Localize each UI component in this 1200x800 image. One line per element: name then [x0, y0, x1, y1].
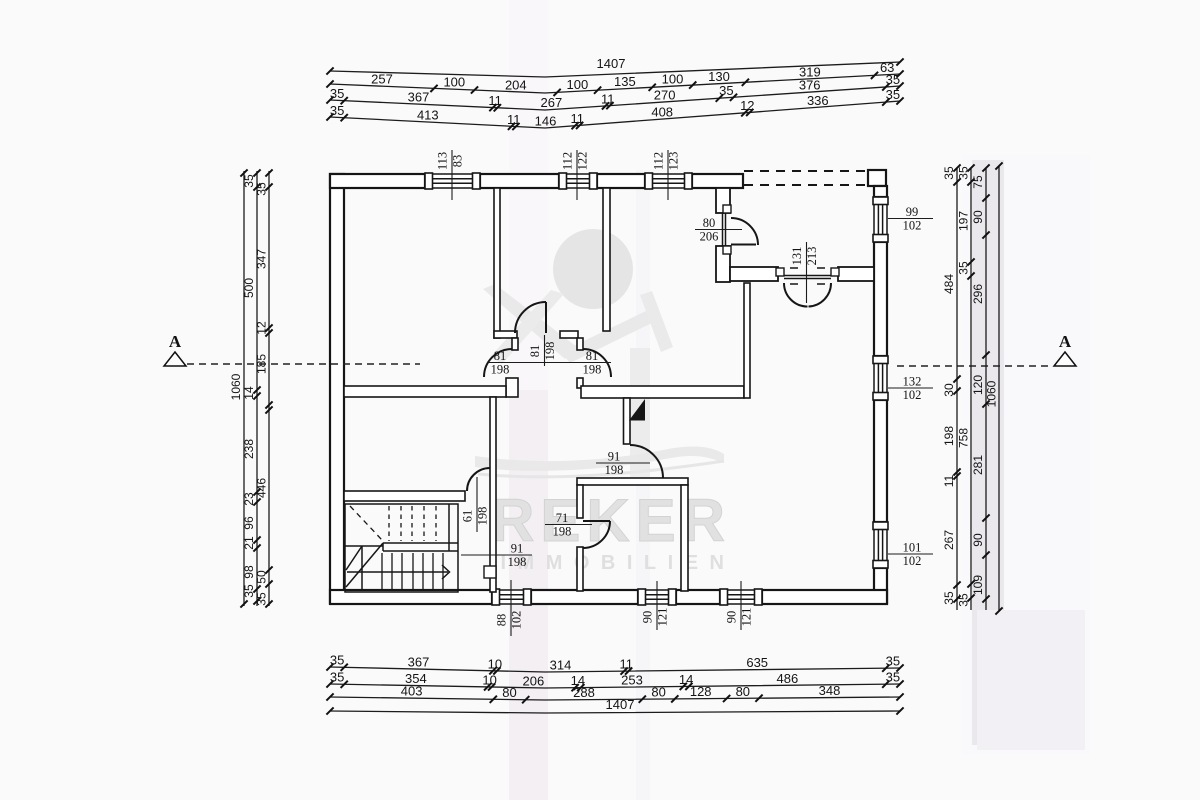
- svg-text:10: 10: [488, 656, 502, 671]
- door 80 jamb lower: [723, 246, 731, 254]
- svg-text:281: 281: [971, 455, 985, 475]
- outer wall right segment 1: [874, 186, 887, 197]
- door 131 jamb left: [776, 268, 784, 276]
- svg-text:131: 131: [790, 247, 804, 266]
- outer wall left: [330, 174, 344, 603]
- svg-text:80: 80: [703, 216, 716, 230]
- svg-text:367: 367: [408, 655, 430, 670]
- svg-text:35: 35: [957, 166, 971, 180]
- svg-text:90: 90: [971, 210, 985, 224]
- interior wall corridor west notch: [484, 566, 496, 578]
- svg-text:A: A: [1059, 332, 1072, 351]
- door 80 jamb upper: [723, 205, 731, 213]
- watermark swoosh ribbon: [475, 447, 724, 471]
- staircase dashed diagonal: [350, 506, 382, 540]
- interior wall bath bottom right: [560, 331, 578, 338]
- svg-text:198: 198: [553, 525, 572, 539]
- staircase outline: [345, 504, 458, 592]
- svg-text:83: 83: [451, 155, 465, 168]
- svg-text:35: 35: [886, 670, 900, 685]
- svg-text:1060: 1060: [229, 373, 243, 400]
- interior wall hall pier left: [506, 378, 518, 397]
- window 132x102 right: [874, 356, 887, 400]
- door 131 jamb right: [831, 268, 839, 276]
- staircase winder diagonal: [346, 543, 383, 587]
- label window label 101/102: [888, 553, 933, 555]
- label door label 91/198 upper: [596, 462, 650, 464]
- svg-text:10: 10: [482, 673, 496, 688]
- svg-text:102: 102: [903, 554, 922, 568]
- svg-text:288: 288: [573, 685, 595, 700]
- outer wall bottom segment 3: [676, 590, 720, 604]
- svg-text:81: 81: [586, 349, 599, 363]
- interior wall hall east: [581, 386, 744, 398]
- dimension chain L-inner line: [268, 171, 270, 606]
- svg-text:135: 135: [614, 74, 636, 89]
- door 80x206 leaf open: [731, 244, 756, 246]
- outer wall top segment 1: [330, 174, 425, 188]
- svg-text:408: 408: [651, 105, 673, 120]
- svg-text:35: 35: [330, 86, 344, 101]
- svg-text:91: 91: [608, 450, 621, 464]
- door 131x213 left arc: [784, 283, 808, 307]
- svg-text:35: 35: [255, 592, 269, 606]
- svg-text:198: 198: [543, 342, 557, 361]
- interior wall corridor east: [624, 398, 631, 444]
- svg-text:204: 204: [505, 77, 527, 92]
- svg-text:91: 91: [511, 542, 524, 556]
- svg-text:197: 197: [957, 211, 971, 231]
- svg-text:35: 35: [942, 166, 956, 180]
- svg-text:35: 35: [330, 103, 344, 118]
- door 131x213 closed leaves: [784, 275, 831, 277]
- watermark roof band apex: [561, 311, 654, 363]
- interior wall room2 east lower: [716, 246, 730, 282]
- interior wall small room east: [681, 485, 688, 591]
- label window label 132/102: [888, 387, 933, 389]
- label door label 81/198 right: [559, 362, 561, 364]
- svg-text:185: 185: [255, 354, 269, 374]
- door 80x206 arc: [731, 218, 758, 245]
- svg-text:1060: 1060: [985, 380, 999, 407]
- svg-text:120: 120: [971, 375, 985, 395]
- dimension chain B1 line: [330, 667, 900, 672]
- svg-text:213: 213: [805, 247, 819, 266]
- dimension chain B2 ticks: [326, 680, 903, 691]
- svg-text:11: 11: [942, 474, 956, 487]
- svg-text:206: 206: [523, 673, 545, 688]
- interior wall small room west lower: [577, 547, 583, 591]
- window 101x102 right: [874, 522, 887, 568]
- svg-text:81: 81: [494, 349, 507, 363]
- svg-text:347: 347: [255, 249, 269, 269]
- label door label 61/198: [476, 477, 478, 532]
- label door label 81/198 left: [489, 362, 611, 364]
- svg-text:486: 486: [777, 671, 799, 686]
- door 81x198 left arc: [484, 349, 512, 377]
- dimension chain R-outer line: [956, 168, 958, 610]
- dimension chain B2 line: [330, 684, 900, 688]
- dimension chain R-inner ticks: [982, 164, 989, 602]
- svg-text:35: 35: [942, 591, 956, 605]
- dimension chain L-total ticks: [240, 169, 247, 607]
- terrace dashed edge upper: [744, 170, 866, 172]
- dimension chain R-mid ticks: [967, 164, 974, 601]
- svg-text:198: 198: [605, 463, 624, 477]
- label window label 90/121 right: [740, 581, 742, 630]
- outer wall top segment 4: [692, 174, 743, 188]
- svg-text:270: 270: [654, 87, 676, 102]
- svg-text:113: 113: [436, 152, 450, 170]
- svg-text:100: 100: [567, 77, 589, 92]
- section line left: [187, 363, 420, 365]
- svg-text:348: 348: [819, 683, 841, 698]
- svg-text:376: 376: [799, 78, 821, 93]
- dimension chain T4 ticks: [326, 97, 903, 130]
- door 80x206 leaf closed: [722, 213, 724, 246]
- svg-text:30: 30: [942, 383, 956, 397]
- svg-text:413: 413: [417, 108, 439, 123]
- svg-text:112: 112: [652, 152, 666, 170]
- staircase walking line: [347, 571, 448, 573]
- dimension chain B4 line: [330, 711, 900, 713]
- svg-text:198: 198: [583, 363, 602, 377]
- dimension chain T3 ticks: [326, 82, 903, 111]
- svg-text:206: 206: [700, 230, 719, 244]
- interior wall topright room south east: [838, 267, 874, 281]
- window 112x123 top: [645, 174, 692, 188]
- svg-text:21: 21: [242, 536, 256, 550]
- dimension chain T1 line: [330, 62, 900, 77]
- interior wall hall pier right: [577, 378, 583, 388]
- watermark roof band left: [483, 284, 577, 359]
- label window label 113/83: [451, 150, 453, 200]
- dimension chain L-mid line: [256, 171, 258, 606]
- section line right: [897, 365, 1053, 367]
- svg-text:238: 238: [242, 439, 256, 459]
- watermark pole: [630, 348, 650, 484]
- svg-text:35: 35: [886, 72, 900, 87]
- interior wall room2 east upper: [716, 188, 730, 213]
- window 90x121 bottom left: [638, 590, 676, 604]
- interior wall stub hall left: [512, 338, 518, 350]
- svg-text:446: 446: [255, 478, 269, 498]
- svg-text:758: 758: [957, 428, 971, 448]
- dimension chain B3 ticks: [326, 693, 903, 703]
- watermark right steep band: [640, 291, 673, 352]
- label door label 131/213: [806, 242, 808, 303]
- label door label 80/206: [695, 229, 742, 231]
- svg-text:121: 121: [656, 608, 670, 627]
- window 113x83 top: [425, 174, 480, 188]
- svg-text:12: 12: [255, 321, 269, 335]
- svg-text:267: 267: [942, 530, 956, 550]
- svg-text:88: 88: [495, 614, 509, 627]
- staircase arrow: [442, 565, 450, 579]
- outer wall bottom segment 1: [330, 590, 492, 604]
- window 90x121 bottom right: [720, 590, 762, 604]
- svg-text:35: 35: [886, 87, 900, 102]
- scan fold band center: [509, 0, 548, 390]
- watermark cross band: [490, 290, 564, 364]
- dimension chain R-inner line: [985, 168, 987, 610]
- svg-text:128: 128: [690, 684, 712, 699]
- interior wall small room west upper: [577, 485, 583, 518]
- svg-text:50: 50: [255, 570, 269, 584]
- dimension chain T2 line: [330, 74, 900, 93]
- svg-text:11: 11: [507, 112, 521, 127]
- svg-text:11: 11: [571, 111, 585, 126]
- svg-text:123: 123: [667, 152, 681, 171]
- scan faint band right-center: [636, 170, 650, 800]
- svg-text:130: 130: [708, 69, 730, 84]
- svg-text:11: 11: [620, 657, 634, 672]
- interior wall bath left: [494, 188, 500, 338]
- dimension chain B3 line: [330, 697, 900, 700]
- dimension chain B4 ticks: [326, 707, 903, 714]
- label door label 91/198 lower: [461, 554, 532, 556]
- svg-text:198: 198: [508, 555, 527, 569]
- svg-text:35: 35: [255, 182, 269, 196]
- interior wall small room north: [577, 478, 688, 485]
- staircase right wall line: [448, 504, 450, 551]
- interior wall hall west: [344, 386, 506, 397]
- svg-text:90: 90: [641, 611, 655, 624]
- svg-text:109: 109: [971, 575, 985, 595]
- interior wall stub hall right: [577, 338, 583, 350]
- svg-text:146: 146: [535, 114, 557, 129]
- label door label 71/198: [545, 524, 592, 526]
- dimension chain R-mid line: [970, 168, 972, 610]
- staircase newel lines: [361, 546, 363, 591]
- window 99x102 right: [874, 197, 887, 242]
- staircase upper flight dashed treads: [389, 506, 436, 541]
- svg-text:71: 71: [556, 511, 569, 525]
- svg-text:112: 112: [561, 152, 575, 170]
- staircase lower flight treads: [382, 553, 443, 591]
- chimney symbol: [629, 399, 645, 421]
- svg-text:80: 80: [736, 684, 750, 699]
- svg-text:35: 35: [719, 83, 733, 98]
- svg-text:100: 100: [443, 75, 465, 90]
- svg-text:12: 12: [740, 98, 754, 113]
- dimension chain T2 ticks: [326, 70, 903, 96]
- dimension chain R-total line: [998, 166, 1000, 611]
- svg-text:1407: 1407: [606, 697, 635, 712]
- svg-text:96: 96: [242, 516, 256, 530]
- svg-text:635: 635: [746, 655, 768, 670]
- door 71x198 arc: [583, 521, 610, 548]
- svg-text:198: 198: [476, 507, 490, 526]
- outer wall bottom segment 4: [762, 590, 887, 604]
- svg-text:REKER: REKER: [491, 487, 731, 554]
- svg-text:A: A: [169, 332, 182, 351]
- dimension chain L-mid ticks: [253, 169, 260, 604]
- door 131x213 dashes: [790, 268, 825, 284]
- svg-text:336: 336: [807, 93, 829, 108]
- svg-text:80: 80: [651, 685, 665, 700]
- dimension chain T1 ticks: [326, 58, 903, 74]
- dimension chain T4 line: [330, 101, 900, 128]
- door 71x198 leaf: [583, 520, 610, 522]
- svg-text:75: 75: [971, 175, 985, 189]
- svg-text:121: 121: [740, 608, 754, 627]
- label window label 112/122: [576, 150, 578, 200]
- label window label 88/102: [510, 580, 512, 636]
- svg-text:11: 11: [488, 93, 502, 108]
- svg-text:11: 11: [601, 91, 615, 106]
- label window label 99/102: [888, 218, 933, 220]
- dimension chain R-outer ticks: [953, 164, 960, 602]
- outer wall right segment 2: [874, 242, 887, 356]
- window 112x122 top: [559, 174, 597, 188]
- door 131x213 right arc: [809, 283, 832, 307]
- outer wall top segment 2: [480, 174, 559, 188]
- staircase middle rail: [383, 542, 458, 544]
- svg-text:198: 198: [491, 363, 510, 377]
- dimension chain R-total ticks: [995, 162, 1002, 614]
- interior wall lower hall: [344, 491, 465, 501]
- label door label 81/198 bath: [544, 335, 546, 366]
- dimension chain T3 line: [330, 86, 900, 110]
- interior wall corridor west: [490, 397, 496, 592]
- door 61x198 arc: [467, 468, 490, 491]
- svg-text:35: 35: [957, 261, 971, 275]
- interior wall bath right: [603, 188, 610, 331]
- svg-text:132: 132: [903, 375, 922, 389]
- svg-text:101: 101: [903, 541, 922, 555]
- svg-text:90: 90: [971, 533, 985, 547]
- scan shading right page edge: [962, 155, 1090, 755]
- interior wall bath bottom left: [494, 331, 517, 338]
- svg-text:257: 257: [371, 72, 393, 87]
- svg-text:100: 100: [662, 72, 684, 87]
- interior wall topright room south west: [730, 267, 778, 281]
- svg-text:314: 314: [550, 657, 572, 672]
- svg-text:IMMOBILIEN: IMMOBILIEN: [501, 552, 736, 574]
- svg-text:35: 35: [330, 670, 344, 685]
- svg-text:61: 61: [461, 510, 475, 523]
- svg-text:81: 81: [528, 345, 542, 358]
- door 81x198 right arc: [583, 349, 611, 377]
- svg-text:500: 500: [242, 278, 256, 298]
- svg-text:484: 484: [942, 274, 956, 294]
- watermark logo circle: [553, 229, 633, 309]
- label window label 90/121 left: [656, 581, 658, 630]
- svg-text:267: 267: [541, 95, 563, 110]
- dimension chain B1 ticks: [326, 663, 903, 674]
- window 88x102 bottom: [492, 590, 531, 604]
- svg-text:80: 80: [502, 685, 516, 700]
- svg-text:14: 14: [242, 386, 256, 400]
- door 91x198 upper arc: [630, 445, 663, 478]
- svg-text:1407: 1407: [597, 56, 626, 71]
- dimension chain L-inner ticks: [265, 169, 272, 607]
- interior wall living west: [744, 283, 750, 398]
- outer wall right segment 3: [874, 400, 887, 522]
- outer wall right segment 4: [874, 568, 887, 603]
- svg-text:102: 102: [510, 611, 524, 630]
- svg-text:99: 99: [906, 205, 919, 219]
- svg-text:296: 296: [971, 284, 985, 304]
- outer wall top segment 3: [597, 174, 645, 188]
- svg-text:253: 253: [621, 673, 643, 688]
- svg-text:102: 102: [903, 219, 922, 233]
- svg-text:198: 198: [942, 426, 956, 446]
- svg-text:90: 90: [725, 611, 739, 624]
- door bath arc: [515, 302, 546, 333]
- svg-text:35: 35: [886, 654, 900, 669]
- label window label 112/123: [667, 150, 669, 200]
- svg-text:102: 102: [903, 388, 922, 402]
- svg-text:403: 403: [401, 684, 423, 699]
- door bath leaf: [545, 302, 547, 333]
- outer wall bottom segment 2: [531, 590, 638, 604]
- corner post: [868, 170, 886, 186]
- terrace dashed edge lower: [744, 184, 866, 186]
- svg-text:35: 35: [330, 653, 344, 668]
- svg-text:35: 35: [957, 593, 971, 607]
- svg-text:367: 367: [408, 90, 430, 105]
- dimension chain L-total line: [243, 171, 245, 606]
- svg-text:122: 122: [576, 152, 590, 171]
